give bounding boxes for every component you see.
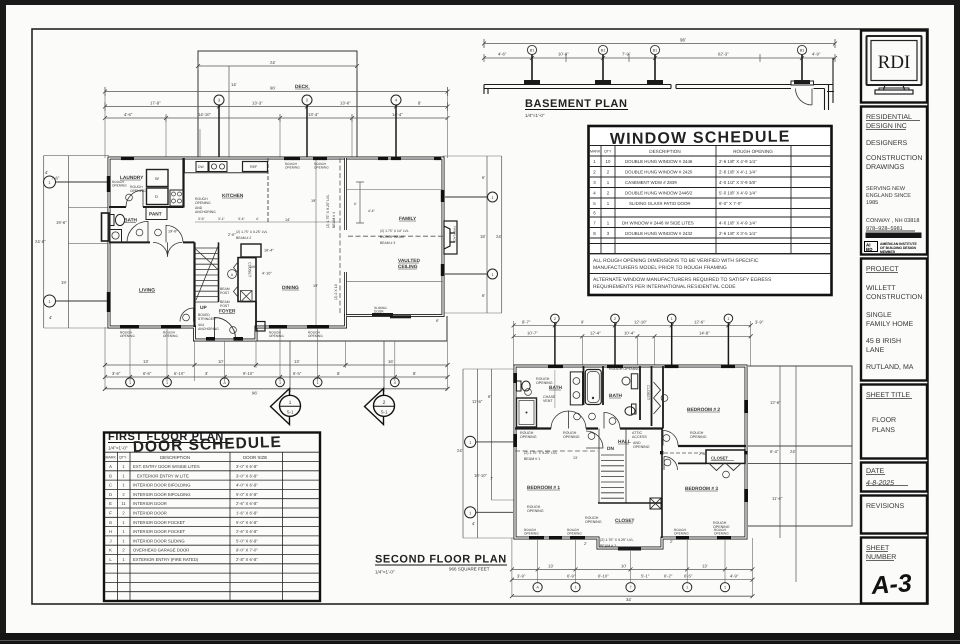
door arc hall (166, 225, 183, 242)
room labels (120, 175, 420, 315)
svg-text:24': 24' (457, 448, 463, 453)
windows left/right wall (513, 373, 748, 502)
svg-text:1: 1 (279, 381, 281, 385)
deck depth dim 14' (228, 66, 230, 158)
svg-text:9'-10": 9'-10" (243, 371, 254, 376)
svg-text:4'-9": 4'-9" (730, 574, 739, 579)
svg-text:MANUFACTURERS MODEL PRIOR TO: MANUFACTURERS MODEL PRIOR TO ROUGH FRAMI… (593, 265, 727, 271)
bifold hall closet (654, 382, 661, 414)
firm box (861, 107, 927, 255)
svg-text:A: A (109, 464, 112, 469)
svg-text:(2) 1.75" X 9.25" LVL: (2) 1.75" X 9.25" LVL (600, 538, 633, 542)
fireplace (444, 221, 457, 254)
svg-text:RESIDENTIAL: RESIDENTIAL (866, 114, 912, 121)
svg-text:BD: BD (866, 247, 873, 252)
svg-text:34': 34' (626, 597, 632, 602)
beam plates (524, 80, 810, 84)
svg-text:4'-10": 4'-10" (262, 272, 272, 276)
svg-text:CASEMENT WDW # 2839: CASEMENT WDW # 2839 (625, 180, 677, 185)
svg-text:5'-1": 5'-1" (641, 574, 650, 579)
svg-text:4'-6 1/8" X 4'-9 1/4": 4'-6 1/8" X 4'-9 1/4" (719, 221, 757, 226)
svg-text:96': 96' (680, 38, 686, 43)
svg-text:19'-6": 19'-6" (56, 220, 67, 225)
svg-text:8'-7": 8'-7" (522, 319, 531, 324)
bottom extension lines (538, 540, 725, 582)
svg-text:1/4"=1'-0": 1/4"=1'-0" (375, 570, 395, 575)
svg-text:10'-4": 10'-4" (624, 330, 635, 335)
svg-text:FAMILY HOME: FAMILY HOME (866, 321, 914, 328)
svg-text:3': 3' (205, 371, 208, 376)
svg-text:C: C (109, 483, 112, 488)
svg-text:B1: B1 (800, 49, 804, 53)
svg-text:SHEET TITLE: SHEET TITLE (866, 392, 910, 399)
range (170, 190, 183, 206)
svg-text:UP: UP (200, 305, 207, 311)
svg-text:13': 13' (573, 456, 578, 460)
sheet title box (861, 385, 927, 459)
svg-text:6'-4": 6'-4" (770, 449, 779, 454)
svg-text:BEAM # 2: BEAM # 2 (236, 236, 251, 240)
toilet (110, 215, 115, 226)
top dim row 1 (105, 106, 448, 108)
dim row (484, 57, 835, 59)
svg-text:6': 6' (482, 175, 485, 180)
svg-text:ALL ROUGH OPENING DIMENSIONS: ALL ROUGH OPENING DIMENSIONS TO BE VERIF… (593, 258, 759, 264)
svg-text:K: K (109, 548, 112, 553)
svg-text:DESIGN INC: DESIGN INC (866, 123, 907, 130)
svg-text:PROJECT: PROJECT (866, 266, 899, 273)
kitchen/dining dashed (267, 158, 269, 222)
svg-text:1: 1 (727, 317, 729, 321)
svg-text:6': 6' (488, 394, 491, 399)
svg-text:1: 1 (166, 381, 168, 385)
svg-text:62'-3": 62'-3" (718, 52, 729, 57)
svg-text:16': 16' (388, 359, 394, 364)
door arc bath (127, 221, 148, 242)
fireplace label (453, 226, 457, 243)
svg-text:BEAM # 4: BEAM # 4 (332, 212, 336, 228)
shelf box above closet (241, 244, 261, 257)
svg-text:6'-10": 6'-10" (598, 574, 609, 579)
small annotation texts (130, 185, 409, 331)
svg-text:16'-4": 16'-4" (264, 249, 274, 253)
toilet 2 (632, 404, 637, 414)
outer walls (515, 366, 746, 548)
svg-text:2'-6": 2'-6" (228, 233, 236, 237)
bottom dim row 2 (512, 579, 753, 581)
svg-text:12'-6": 12'-6" (770, 400, 781, 405)
svg-text:6': 6' (482, 293, 485, 298)
svg-text:ANCHORING: ANCHORING (198, 327, 219, 331)
svg-text:CLOSET: CLOSET (711, 456, 728, 461)
svg-text:B1: B1 (653, 49, 657, 53)
svg-text:INTERIOR DOOR: INTERIOR DOOR (133, 501, 167, 506)
svg-text:MARK: MARK (590, 150, 601, 154)
svg-text:SECOND FLOOR PLAN: SECOND FLOOR PLAN (375, 554, 507, 566)
svg-text:INTERIOR DOOR BIFOLDING: INTERIOR DOOR BIFOLDING (133, 483, 190, 488)
svg-text:DH WINDOW # 2446 W SIDE LITES: DH WINDOW # 2446 W SIDE LITES (622, 221, 694, 226)
svg-text:24': 24' (496, 234, 502, 239)
svg-text:4'-0" X 6'-8": 4'-0" X 6'-8" (236, 483, 258, 488)
svg-text:SINGLE: SINGLE (866, 312, 892, 319)
svg-text:19': 19' (311, 199, 316, 203)
outer walls (109, 158, 443, 340)
svg-text:19'-6": 19'-6" (168, 230, 178, 234)
svg-text:INTERIOR DOOR SLIDING: INTERIOR DOOR SLIDING (133, 538, 185, 543)
svg-text:OPENING: OPENING (112, 184, 127, 188)
svg-text:4': 4' (49, 315, 52, 320)
svg-text:1: 1 (317, 381, 319, 385)
laundry-bath wall (109, 206, 184, 208)
svg-text:3'-6": 3'-6" (112, 371, 121, 376)
deck dim 24' (198, 62, 357, 70)
x-box (241, 291, 253, 303)
bottom overall (512, 595, 753, 597)
overall dim line 96' (484, 39, 835, 48)
svg-text:6'-2": 6'-2" (664, 574, 673, 579)
vanity 2 (631, 374, 638, 389)
coat closet (238, 258, 256, 302)
svg-text:13'-6": 13'-6" (340, 101, 351, 106)
section marker 2 (365, 341, 395, 425)
svg-text:6'-0" X 7'-0": 6'-0" X 7'-0" (719, 201, 742, 206)
svg-text:B: B (109, 473, 112, 478)
svg-text:13'-3": 13'-3" (252, 101, 263, 106)
vanity 1 (570, 372, 582, 405)
bath bump left (102, 213, 110, 241)
svg-text:S-1: S-1 (287, 410, 294, 415)
svg-text:E: E (109, 501, 112, 506)
svg-text:CONSTRUCTION: CONSTRUCTION (866, 155, 922, 162)
svg-text:2'-8" X 6'-8": 2'-8" X 6'-8" (236, 557, 258, 562)
dishwasher (196, 162, 208, 172)
svg-text:8': 8' (418, 101, 421, 106)
svg-text:ACCESS: ACCESS (632, 435, 647, 439)
beam1 dashed (515, 450, 598, 452)
svg-text:4X8: 4X8 (249, 265, 255, 269)
svg-text:12'-10": 12'-10" (634, 319, 648, 324)
svg-text:3'-6": 3'-6" (198, 217, 206, 221)
header (106, 455, 268, 460)
svg-text:DOOR SIZE: DOOR SIZE (243, 455, 267, 460)
svg-text:4': 4' (472, 521, 475, 526)
svg-text:DRAWINGS: DRAWINGS (866, 164, 905, 171)
svg-text:OPENING: OPENING (120, 334, 135, 338)
svg-text:INTERIOR DOOR BIFOLDING: INTERIOR DOOR BIFOLDING (133, 492, 190, 497)
svg-text:DOUBLE HUNG WINDOW # 2432: DOUBLE HUNG WINDOW # 2432 (625, 231, 693, 236)
svg-text:4'-4": 4'-4" (368, 209, 376, 213)
living top wall (109, 241, 195, 243)
stairs down (599, 429, 626, 504)
svg-text:PANT: PANT (149, 212, 162, 218)
svg-text:DOUBLE HUNG WINDOW # 2446: DOUBLE HUNG WINDOW # 2446 (625, 159, 693, 164)
bottom dim row 2 (105, 376, 448, 378)
family beam dashed (348, 235, 443, 237)
top overall dim 96' (105, 87, 448, 96)
svg-text:W: W (155, 176, 159, 181)
svg-text:ANCHORING: ANCHORING (195, 210, 216, 214)
svg-text:2'-6" X 6'-8": 2'-6" X 6'-8" (236, 501, 258, 506)
svg-text:6'-5": 6'-5" (293, 371, 302, 376)
svg-text:10'-9": 10'-9" (558, 52, 569, 57)
svg-text:B1: B1 (530, 49, 534, 53)
closet under stairs door (180, 308, 194, 322)
svg-text:4'-6": 4'-6" (124, 112, 133, 117)
svg-text:11'-6": 11'-6" (472, 399, 483, 404)
svg-text:BEAM # 3: BEAM # 3 (380, 241, 395, 245)
svg-text:A-3: A-3 (869, 569, 912, 600)
left dims (463, 369, 491, 538)
svg-text:OPENING: OPENING (308, 334, 323, 338)
svg-text:7: 7 (629, 586, 631, 590)
svg-text:INTERIOR DOOR POCKET: INTERIOR DOOR POCKET (133, 520, 186, 525)
svg-text:OPENING: OPENING (195, 201, 211, 205)
svg-text:11'-6": 11'-6" (772, 496, 783, 501)
shower (517, 398, 537, 427)
rows (593, 159, 757, 236)
toilet 1 (517, 381, 522, 391)
svg-text:D: D (155, 194, 158, 199)
svg-text:10: 10 (606, 159, 611, 164)
svg-text:1/4"=1'-0": 1/4"=1'-0" (525, 113, 545, 118)
patio slider (372, 313, 393, 316)
grid verticals (601, 146, 791, 254)
logo box (861, 31, 927, 103)
svg-text:FIREPLACE: FIREPLACE (453, 226, 457, 243)
svg-text:4: 4 (394, 381, 396, 385)
bottom overall dim (105, 388, 448, 390)
svg-text:DESIGNERS: DESIGNERS (866, 140, 908, 147)
svg-text:966 SQUARE FEET: 966 SQUARE FEET (449, 567, 490, 572)
bottom extension lines (130, 329, 395, 381)
svg-text:1: 1 (686, 586, 688, 590)
svg-text:OPENING: OPENING (269, 334, 284, 338)
windows left wall (107, 176, 111, 312)
svg-text:1: 1 (574, 586, 576, 590)
bottom markers (126, 378, 400, 387)
front door (215, 318, 236, 339)
double doors living (153, 242, 182, 257)
bath1/bath2 walls (584, 366, 664, 429)
foundation wall (484, 58, 834, 110)
revisions box (861, 496, 927, 534)
deck outline (198, 51, 357, 158)
door circles (525, 389, 671, 466)
svg-text:BEAM # 1: BEAM # 1 (524, 457, 540, 461)
svg-text:S-1: S-1 (381, 410, 388, 415)
svg-text:OPENING: OPENING (633, 445, 650, 449)
family 6' dim (356, 182, 364, 223)
svg-text:BEAM # 2: BEAM # 2 (600, 544, 616, 548)
door arc bed1 (586, 431, 603, 448)
svg-text:1: 1 (289, 400, 292, 406)
svg-text:11: 11 (121, 501, 126, 506)
washer dryer (147, 170, 169, 187)
svg-text:2': 2' (584, 542, 587, 546)
svg-text:(2) 1.75" X 14" LVL: (2) 1.75" X 14" LVL (380, 229, 409, 233)
svg-text:13'-4": 13'-4" (308, 112, 319, 117)
beam sill bump (618, 547, 641, 551)
svg-text:7': 7' (490, 476, 493, 481)
svg-text:REVISIONS: REVISIONS (866, 503, 904, 510)
svg-text:13': 13' (548, 563, 554, 568)
svg-text:WILLETT: WILLETT (866, 285, 896, 292)
svg-text:17'-8": 17'-8" (150, 101, 161, 106)
refrigerator (243, 162, 268, 172)
windows top wall (548, 365, 735, 369)
svg-text:REF: REF (250, 165, 258, 169)
svg-text:OPENING: OPENING (714, 532, 729, 536)
svg-text:FLOOR: FLOOR (872, 417, 896, 424)
svg-text:5'-0" X 6'-8": 5'-0" X 6'-8" (236, 520, 258, 525)
basement door swing (791, 81, 814, 85)
svg-text:B1: B1 (601, 49, 605, 53)
svg-text:B-DROP BEAM: B-DROP BEAM (380, 235, 404, 239)
svg-text:RDI: RDI (878, 52, 911, 73)
closet bed3 (706, 450, 745, 463)
door arc bed3 (664, 457, 678, 471)
svg-text:RUTLAND, MA: RUTLAND, MA (866, 364, 914, 371)
svg-text:3'-1": 3'-1" (218, 217, 226, 221)
pantry box (146, 208, 167, 220)
svg-text:F: F (109, 511, 112, 516)
svg-text:10'-10": 10'-10" (474, 473, 488, 478)
svg-text:POST: POST (220, 291, 229, 295)
right dims (780, 366, 796, 582)
svg-text:12'-6": 12'-6" (694, 319, 705, 324)
small dims (584, 540, 673, 546)
svg-text:SERVING NEW: SERVING NEW (866, 186, 906, 192)
top dim row 1 (514, 324, 751, 326)
svg-text:96': 96' (270, 86, 276, 91)
top grid markers (214, 95, 401, 105)
svg-text:DN: DN (607, 446, 614, 452)
grid verticals (118, 452, 283, 601)
interior wall laundry/kitchen (182, 158, 184, 208)
svg-text:OPENING: OPENING (674, 532, 689, 536)
svg-text:10': 10' (218, 359, 224, 364)
stairs up (195, 245, 219, 302)
black edge left (0, 0, 6, 644)
svg-text:3'-0" X 6'-8": 3'-0" X 6'-8" (236, 473, 258, 478)
svg-text:5'-0 1/8" X 4'-9 1/4": 5'-0 1/8" X 4'-9 1/4" (719, 191, 757, 196)
family ceiling break lines (347, 189, 443, 281)
svg-text:24': 24' (270, 60, 276, 65)
black edge bottom (0, 633, 960, 644)
svg-text:QTY: QTY (604, 150, 612, 154)
svg-text:(2) 2 X 10: (2) 2 X 10 (334, 284, 338, 300)
svg-text:DATE: DATE (866, 468, 884, 475)
svg-text:ROUGH OPENING: ROUGH OPENING (733, 149, 773, 154)
svg-text:13': 13' (143, 359, 149, 364)
svg-text:4'-9": 4'-9" (812, 52, 821, 57)
svg-text:MARK: MARK (106, 456, 117, 460)
svg-text:6': 6' (354, 202, 357, 206)
svg-text:DESCRIPTION: DESCRIPTION (649, 149, 680, 154)
svg-text:1/4"=1'-0": 1/4"=1'-0" (108, 446, 128, 451)
svg-text:D: D (109, 492, 112, 497)
svg-text:DOUBLE HUNG WINDOW 2446/2: DOUBLE HUNG WINDOW 2446/2 (625, 191, 693, 196)
svg-text:INTERIOR DOOR POCKET: INTERIOR DOOR POCKET (133, 529, 186, 534)
svg-text:7'-6": 7'-6" (51, 176, 60, 181)
svg-text:EXTERIOR ENTRY (FIRE RATED): EXTERIOR ENTRY (FIRE RATED) (133, 557, 199, 562)
svg-text:NUMBER: NUMBER (866, 554, 896, 561)
svg-text:DESCRIPTION: DESCRIPTION (160, 455, 190, 460)
svg-text:BASEMENT PLAN: BASEMENT PLAN (525, 98, 628, 110)
grid horizontals (589, 146, 832, 274)
svg-text:SHEET: SHEET (866, 545, 890, 552)
AIBD logo (865, 242, 918, 255)
svg-text:OPENING: OPENING (585, 520, 602, 524)
beam labels (520, 367, 730, 548)
svg-text:(2) 1.75" X 9.25" LVL: (2) 1.75" X 9.25" LVL (524, 451, 557, 455)
svg-text:OPENING: OPENING (536, 381, 553, 385)
svg-text:EXTERIOR ENTRY W LITE: EXTERIOR ENTRY W LITE (137, 473, 189, 478)
right dim lines (487, 156, 502, 313)
foyer/living wall (193, 242, 195, 327)
svg-text:2: 2 (554, 317, 556, 321)
svg-text:STRINGER: STRINGER (198, 317, 216, 321)
svg-text:J: J (109, 538, 111, 543)
svg-text:G: G (109, 520, 112, 525)
svg-text:4'-0 1/2" X 3'-9 3/8": 4'-0 1/2" X 3'-9 3/8" (719, 180, 757, 185)
kitchen dim row (195, 221, 340, 223)
svg-text:2: 2 (614, 317, 616, 321)
tub (585, 370, 601, 405)
top dim row 2 (514, 335, 751, 337)
svg-text:24'-8": 24'-8" (35, 239, 46, 244)
family left wall (344, 158, 347, 316)
svg-text:19': 19' (313, 284, 318, 288)
svg-text:OVERHEAD GARAGE DOOR: OVERHEAD GARAGE DOOR (133, 548, 189, 553)
svg-text:POST: POST (220, 304, 229, 308)
dining/family beam dashed (339, 158, 341, 315)
svg-text:ENGLAND SINCE: ENGLAND SINCE (866, 193, 911, 199)
section marker 1 (271, 341, 301, 425)
svg-text:OPENING: OPENING (527, 509, 544, 513)
svg-text:6'-5": 6'-5" (684, 574, 693, 579)
foyer right wall (255, 302, 257, 330)
svg-text:1: 1 (129, 381, 131, 385)
notes (593, 258, 772, 290)
svg-text:4-8-2025: 4-8-2025 (866, 480, 894, 487)
svg-text:3'-9": 3'-9" (755, 319, 764, 324)
svg-text:CONWAY , NH 03818: CONWAY , NH 03818 (866, 218, 919, 224)
svg-text:2'-6 1/8" X 3'-5 1/4": 2'-6 1/8" X 3'-5 1/4" (719, 231, 757, 236)
svg-text:QTY: QTY (119, 456, 127, 460)
windows right wall (441, 190, 445, 276)
windows bottom wall (529, 536, 731, 540)
date box (861, 463, 927, 492)
svg-text:OPENING: OPENING (130, 189, 146, 193)
svg-text:4': 4' (45, 170, 48, 175)
svg-text:19': 19' (61, 280, 67, 285)
door arc bed2 (663, 431, 678, 446)
svg-text:14': 14' (231, 82, 237, 87)
svg-text:OPENING: OPENING (524, 532, 539, 536)
svg-text:6'-10": 6'-10" (174, 371, 185, 376)
svg-text:1'-6" X 6'-8": 1'-6" X 6'-8" (236, 511, 258, 516)
bed3 top wall (678, 462, 706, 464)
svg-text:OPENING: OPENING (690, 435, 707, 439)
svg-text:6'-9": 6'-9" (567, 574, 576, 579)
svg-text:45 B IRISH: 45 B IRISH (866, 338, 901, 345)
door marker A (228, 270, 237, 279)
svg-text:13': 13' (294, 359, 300, 364)
svg-text:3'-0" X 6'-8": 3'-0" X 6'-8" (236, 464, 258, 469)
grid horizontals (104, 452, 320, 592)
bath sink (110, 230, 122, 243)
